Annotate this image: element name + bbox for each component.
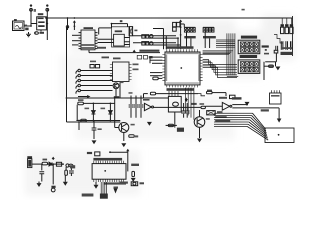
terminal J2 <box>46 4 48 6</box>
label <box>219 97 227 99</box>
label 5-1k <box>131 164 139 166</box>
diode D3 <box>92 103 94 110</box>
label R16 <box>207 90 212 92</box>
label +5V <box>70 165 75 168</box>
AC adapter T1 <box>13 21 25 31</box>
label Q3 <box>206 118 210 120</box>
wire <box>24 25 31 27</box>
resistor R8 <box>201 106 205 108</box>
capacitor C17 <box>70 167 72 170</box>
power flag <box>73 21 75 24</box>
resistor R5 <box>78 99 84 101</box>
label TX RX <box>261 109 269 111</box>
pins U4 right <box>200 55 203 81</box>
arrow <box>277 119 282 123</box>
resistor R7 <box>129 135 134 138</box>
arrow <box>78 96 88 98</box>
capacitor C18 <box>140 96 142 105</box>
label keypad 1 <box>241 36 257 39</box>
label <box>82 44 95 46</box>
wire <box>46 8 48 40</box>
label C10 <box>191 103 197 105</box>
wires MCU right <box>203 51 233 55</box>
wire <box>166 124 177 126</box>
stair wire <box>274 35 283 44</box>
pins bottom <box>94 179 124 182</box>
wire <box>232 107 279 109</box>
wire <box>123 133 125 142</box>
wires LCD <box>100 182 102 194</box>
capacitor C3 <box>142 42 145 45</box>
pins U4 top <box>167 49 198 52</box>
resistor R16 <box>207 91 213 93</box>
node <box>120 20 123 22</box>
U4 mark <box>180 67 182 69</box>
arrow connector <box>114 189 118 194</box>
label <box>140 182 145 184</box>
resistor R13 <box>65 167 67 170</box>
wire loop <box>98 28 100 35</box>
IC U3 <box>114 34 125 46</box>
ground <box>63 182 68 186</box>
transistor Q2 <box>119 123 129 133</box>
trimmer RV1 <box>131 182 138 186</box>
diode bridge D1 <box>25 25 28 26</box>
wire <box>292 16 294 56</box>
transistor Q1 <box>113 83 119 89</box>
capacitor C2 <box>142 35 145 38</box>
wire VCC rail <box>45 17 293 19</box>
resistor R15 <box>150 92 155 95</box>
label Y1 <box>262 45 269 47</box>
label row <box>93 158 122 161</box>
IC U9 <box>270 93 282 104</box>
terminal J1 <box>30 4 32 6</box>
wires <box>150 56 162 58</box>
switch SW1 <box>51 186 55 188</box>
power flag <box>52 157 54 160</box>
label <box>82 194 94 197</box>
wire <box>76 120 120 122</box>
label <box>34 9 36 12</box>
label rows <box>215 116 227 118</box>
label U3 <box>115 30 122 32</box>
resistor R6 <box>81 119 87 122</box>
capacitor C11 <box>186 103 188 111</box>
pins U5 <box>110 65 132 80</box>
label Q2 <box>131 124 135 126</box>
wire stair <box>198 94 205 96</box>
keypad bus <box>226 33 228 75</box>
wire <box>149 57 151 63</box>
ground <box>26 32 31 37</box>
wire <box>264 65 273 67</box>
capacitor C14 <box>281 18 283 24</box>
capacitor C15 <box>280 41 282 50</box>
LED D2 <box>35 32 39 35</box>
bus bundle <box>247 113 268 140</box>
wire <box>127 152 129 171</box>
resistor R20 <box>134 135 138 137</box>
pin labels U4 <box>166 53 199 54</box>
resistor R19 <box>114 96 119 98</box>
ground <box>197 139 202 143</box>
label U8 <box>87 152 92 154</box>
power flag <box>133 50 135 53</box>
resistor R18 <box>269 65 274 67</box>
label U2 <box>84 27 94 29</box>
wire <box>30 8 32 26</box>
ground <box>92 140 97 144</box>
capacitor C12 <box>275 46 277 51</box>
label <box>281 52 293 55</box>
wires to MCU <box>186 32 188 48</box>
label D4 <box>101 108 106 110</box>
IC U5 <box>113 62 130 82</box>
wire <box>232 104 247 106</box>
transistor Q3 <box>194 117 205 128</box>
wires <box>168 91 170 96</box>
resistor R11 <box>42 162 47 165</box>
pins U4 bottom <box>167 85 198 88</box>
connector pad <box>100 194 108 199</box>
oscillator X1 <box>168 96 181 112</box>
resistor R17 <box>230 95 236 98</box>
diode D4 <box>109 103 111 110</box>
op-amp U6 <box>144 103 151 110</box>
IC U2 <box>81 30 95 50</box>
capacitor C4 <box>150 35 153 38</box>
IC U8 <box>92 164 126 180</box>
label row <box>167 46 194 49</box>
resistor R14 <box>132 171 135 176</box>
terminal TP1 <box>66 26 68 28</box>
key group S2 <box>238 60 260 74</box>
wires U2-U3 <box>98 38 114 40</box>
stair wires MCU to keypad <box>203 60 237 78</box>
node <box>46 17 48 19</box>
diode D5 <box>56 162 61 166</box>
label <box>232 97 242 99</box>
label D3 <box>85 108 90 110</box>
arrow <box>131 178 136 182</box>
label RN2 <box>203 36 216 38</box>
connector J3 <box>129 27 133 36</box>
IC U3 frame <box>112 27 130 47</box>
wire <box>52 164 54 184</box>
wire <box>183 24 185 27</box>
label <box>134 30 137 32</box>
capacitor C9 <box>135 96 137 105</box>
capacitor C13 <box>274 50 278 53</box>
label 0.1uF <box>281 47 292 49</box>
resistor R4 <box>95 65 99 68</box>
battery BT1 <box>27 156 32 158</box>
regulator U1 <box>38 13 44 15</box>
wire bus <box>67 97 169 99</box>
connector J4 <box>76 71 78 74</box>
label C8 <box>129 92 133 94</box>
label <box>119 182 128 184</box>
wire <box>31 23 37 25</box>
ground <box>245 102 250 106</box>
resistor R12 <box>66 164 69 167</box>
wire <box>275 53 277 62</box>
wire <box>67 18 69 30</box>
capacitor C1 <box>34 32 36 34</box>
bus wires to keypad <box>216 39 235 41</box>
pins U4 left <box>162 55 165 81</box>
wire <box>76 105 78 121</box>
wire <box>78 122 80 130</box>
parts row <box>137 55 142 59</box>
resistor R9 <box>207 111 216 115</box>
label keypad 2 <box>240 55 258 58</box>
power flag <box>127 150 129 153</box>
node <box>62 163 64 165</box>
pins U2 left <box>79 33 82 49</box>
wire <box>32 163 42 165</box>
label RN1 <box>184 36 195 38</box>
label row bottom <box>167 88 194 91</box>
label R3 <box>90 61 96 63</box>
wire <box>89 52 160 54</box>
key group S1 <box>238 40 260 54</box>
label <box>217 111 223 113</box>
power flag <box>185 98 187 101</box>
MCU U4 <box>165 52 200 85</box>
ground <box>121 143 126 147</box>
capacitor C5 <box>173 22 177 26</box>
bus wires <box>133 35 176 37</box>
label row <box>104 182 126 184</box>
ground <box>37 183 42 187</box>
wire <box>73 23 75 30</box>
capacitor C16 <box>41 164 43 170</box>
resistor R2 <box>153 77 158 80</box>
node A <box>30 25 32 27</box>
wire <box>212 92 226 94</box>
capacitor C6 <box>173 27 177 31</box>
wires MCU to bus <box>184 88 186 114</box>
resistor R10 <box>168 124 173 126</box>
wire <box>177 38 179 49</box>
connector pad <box>177 128 184 132</box>
bus wires <box>214 112 253 114</box>
label C7 <box>98 128 102 130</box>
resistor network RN1 <box>184 26 195 28</box>
wire <box>115 89 117 98</box>
label Q1 <box>120 82 124 84</box>
label R8 <box>200 103 205 105</box>
label <box>102 57 110 59</box>
wire <box>25 15 295 195</box>
label <box>242 9 245 11</box>
wire <box>72 34 79 36</box>
wire <box>163 29 165 50</box>
capacitor C10 <box>183 103 185 111</box>
ground <box>147 122 152 126</box>
op-amp U7 <box>222 102 229 110</box>
pins <box>124 38 129 45</box>
label R11 <box>43 159 48 161</box>
label <box>133 64 139 66</box>
ground <box>275 67 280 71</box>
wire <box>83 102 114 104</box>
diode D6 <box>49 162 52 166</box>
wire rail <box>66 28 68 123</box>
wire <box>40 30 42 32</box>
wire <box>48 163 64 165</box>
pins top <box>94 161 124 164</box>
wire <box>180 23 182 49</box>
label <box>264 53 269 55</box>
resistor R1 <box>177 22 180 26</box>
resistor network RN2 <box>203 26 214 28</box>
capacitor C8 <box>130 96 132 105</box>
resistor R3 <box>90 65 94 68</box>
label <box>14 19 17 21</box>
wire <box>114 98 116 128</box>
power flag <box>180 20 182 23</box>
wire <box>174 112 176 128</box>
label row <box>139 50 159 52</box>
ground <box>94 185 99 189</box>
node <box>265 49 267 51</box>
label <box>143 99 150 101</box>
pins U2 right <box>95 33 98 49</box>
LCD module LCD1 <box>265 128 294 143</box>
wire <box>144 93 148 95</box>
wire <box>67 121 121 123</box>
capacitor C7 <box>93 121 95 128</box>
wire <box>227 76 238 78</box>
